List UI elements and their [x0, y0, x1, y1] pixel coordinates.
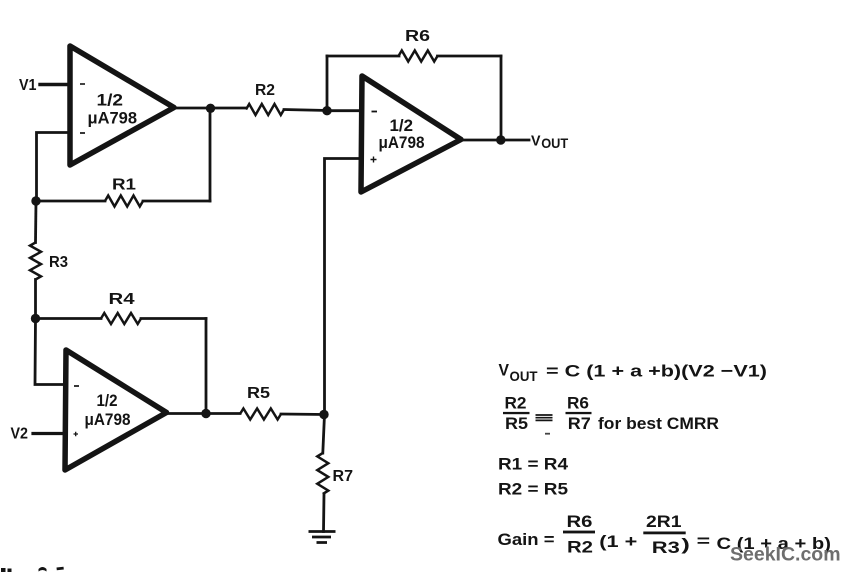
ground	[309, 532, 336, 543]
svg-text:R2: R2	[255, 82, 275, 99]
svg-text:R3: R3	[652, 538, 680, 557]
svg-text:V: V	[499, 361, 510, 380]
svg-text:μA798: μA798	[85, 411, 131, 429]
resistor R1	[36, 177, 210, 207]
junction node U3 output / R4	[201, 409, 210, 418]
svg-text:R5: R5	[247, 385, 270, 402]
equation line 1: VOUT = C (1 + a +b)(V2 - V1)	[499, 361, 768, 385]
equation line 5: Gain = R6/R2 (1 + 2R1/R3) = C (1 + a + b)	[498, 512, 832, 557]
U2 inverting input mark (-)	[372, 111, 378, 113]
svg-text:1/2: 1/2	[97, 91, 124, 110]
svg-text:= C (1 + a +b)(V2 −V1): = C (1 + a +b)(V2 −V1)	[546, 362, 767, 381]
svg-text:R6: R6	[567, 512, 593, 531]
svg-text:R7: R7	[568, 414, 591, 433]
svg-text:R2: R2	[505, 394, 527, 413]
svg-text:for best CMRR: for best CMRR	[598, 414, 719, 433]
svg-text:V1: V1	[19, 77, 37, 94]
junction node R5 / R7 / U2 + input rail	[319, 410, 328, 419]
svg-text:R1: R1	[112, 177, 136, 194]
wire U1 output	[170, 107, 246, 110]
op-amp U1 (1/2 uA798 top-left)	[70, 46, 174, 165]
wire R1 right side up to U1 output node	[209, 109, 212, 202]
svg-text:R3: R3	[49, 254, 68, 271]
junction node U2 output / R6	[496, 135, 505, 144]
svg-text:SeekIC.com: SeekIC.com	[730, 544, 841, 566]
svg-text:R7: R7	[333, 468, 354, 485]
svg-text:R4: R4	[109, 291, 135, 308]
svg-text:OUT: OUT	[510, 369, 539, 384]
resistor R6	[327, 28, 501, 62]
svg-text:OUT: OUT	[541, 136, 569, 151]
svg-text:R5: R5	[505, 414, 528, 433]
equation line 3: R1 = R4	[498, 455, 569, 474]
svg-text:V2: V2	[11, 426, 29, 443]
wire R6 right side down to output node	[500, 56, 503, 140]
U3 inverting input mark (-)	[74, 385, 79, 387]
wire V2 to U3 + input	[33, 432, 66, 435]
svg-text:V: V	[531, 133, 541, 150]
junction node R2 / R6 / U2 inverting input	[322, 106, 331, 115]
svg-text:R2: R2	[567, 537, 593, 556]
resistor R5	[240, 385, 325, 419]
U3 non-inverting input mark (+)	[74, 432, 79, 437]
resistor R7	[317, 415, 353, 532]
wire U1 - input to left rail	[37, 133, 71, 202]
wire node to U2 - input	[327, 109, 362, 112]
svg-text:R1 = R4: R1 = R4	[498, 455, 569, 474]
junction node U1 output / R1 / R2	[206, 104, 215, 113]
svg-text:μA798: μA798	[88, 110, 138, 128]
node V2 input label	[11, 426, 29, 443]
svg-text:=: =	[697, 531, 711, 550]
equation line 4: R2 = R5	[498, 480, 568, 499]
svg-text:): )	[681, 535, 690, 554]
equation line 2: R2/R5 = R6/R7 for best CMRR	[503, 394, 719, 435]
junction node left rail / R1	[31, 196, 40, 205]
resistor R4	[36, 291, 207, 324]
node VOUT label	[531, 133, 569, 151]
svg-text:R2 = R5: R2 = R5	[498, 480, 568, 499]
wire V1 to U1 input	[40, 83, 70, 86]
U1 inverting input mark	[80, 132, 85, 134]
op-amp U2 (1/2 uA798 right)	[361, 76, 461, 192]
svg-text:2R1: 2R1	[646, 512, 682, 531]
resistor R3	[30, 201, 68, 319]
svg-text:R6: R6	[567, 394, 589, 413]
junction node left rail / R4	[31, 314, 40, 323]
op-amp U3 (1/2 uA798 bottom-left)	[65, 350, 167, 470]
svg-text:R6: R6	[405, 28, 430, 45]
SeekIC.com watermark	[730, 544, 841, 566]
figure caption remnant (cut off at page edge)	[1, 567, 64, 572]
svg-text:(1 +: (1 +	[599, 532, 637, 551]
U1 non-inverting input mark	[80, 83, 85, 85]
svg-text:μA798: μA798	[379, 134, 425, 152]
svg-text:1/2: 1/2	[390, 116, 414, 135]
wire U3 output	[163, 412, 240, 415]
wire left rail down to U3 - input	[35, 319, 66, 385]
U2 non-inverting input mark (+)	[371, 157, 377, 163]
svg-text:Gain =: Gain =	[498, 530, 555, 549]
wire R4 right side down to U3 output node	[205, 319, 208, 414]
resistor R2	[246, 82, 327, 115]
wire U2 + input from R5/R7 node rail	[325, 159, 363, 415]
node V1 input label	[19, 77, 37, 94]
wire U2 output to VOUT	[457, 139, 529, 142]
wire R2 node up to R6	[326, 56, 329, 111]
svg-text:1/2: 1/2	[97, 391, 118, 410]
